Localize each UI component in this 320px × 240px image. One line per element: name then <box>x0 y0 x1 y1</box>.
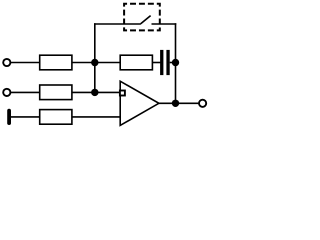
wire IN2 to R3 <box>11 91 40 93</box>
wire R1 to node A and on to R2 <box>72 62 120 64</box>
resistor R2 <box>120 55 152 70</box>
node D junction dot (output to feedback rail) <box>172 100 179 107</box>
op-amp U1 triangle <box>120 81 159 125</box>
node B junction dot <box>91 89 98 96</box>
terminal IN1 <box>3 59 10 66</box>
wire R3 to node B and op-amp inverting input <box>72 91 121 93</box>
capacitor C1 left plate <box>160 50 163 75</box>
node C junction dot (cap to feedback rail) <box>172 59 179 66</box>
wire BT1 to R4 <box>11 116 40 118</box>
wire feedback rail vertical <box>175 23 177 103</box>
wire R4 to op-amp non-inverting input <box>72 116 121 118</box>
resistor R1 <box>40 55 72 70</box>
capacitor C1 right plate <box>166 50 169 75</box>
wire C1 to feedback rail <box>170 62 176 64</box>
battery cell BT1 <box>7 109 11 125</box>
terminal IN2 <box>3 89 10 96</box>
resistor R3 <box>40 85 72 100</box>
op-amp U1 inverting input square marker <box>120 91 125 96</box>
resistor R4 <box>40 110 72 125</box>
wire switch right contact to feedback rail <box>152 23 177 25</box>
node A junction dot <box>91 59 98 66</box>
wire R2 to C1 <box>152 62 160 64</box>
switch S1 blade <box>141 16 151 24</box>
wire top rail to switch <box>94 23 141 25</box>
wire IN1 to R1 <box>11 62 40 64</box>
wire op-amp output to terminal OUT <box>159 102 199 104</box>
dashed enclosure around switch S1 <box>124 4 160 31</box>
terminal OUT <box>199 100 206 107</box>
wire node A vertical (top rail to node B) <box>94 23 96 92</box>
